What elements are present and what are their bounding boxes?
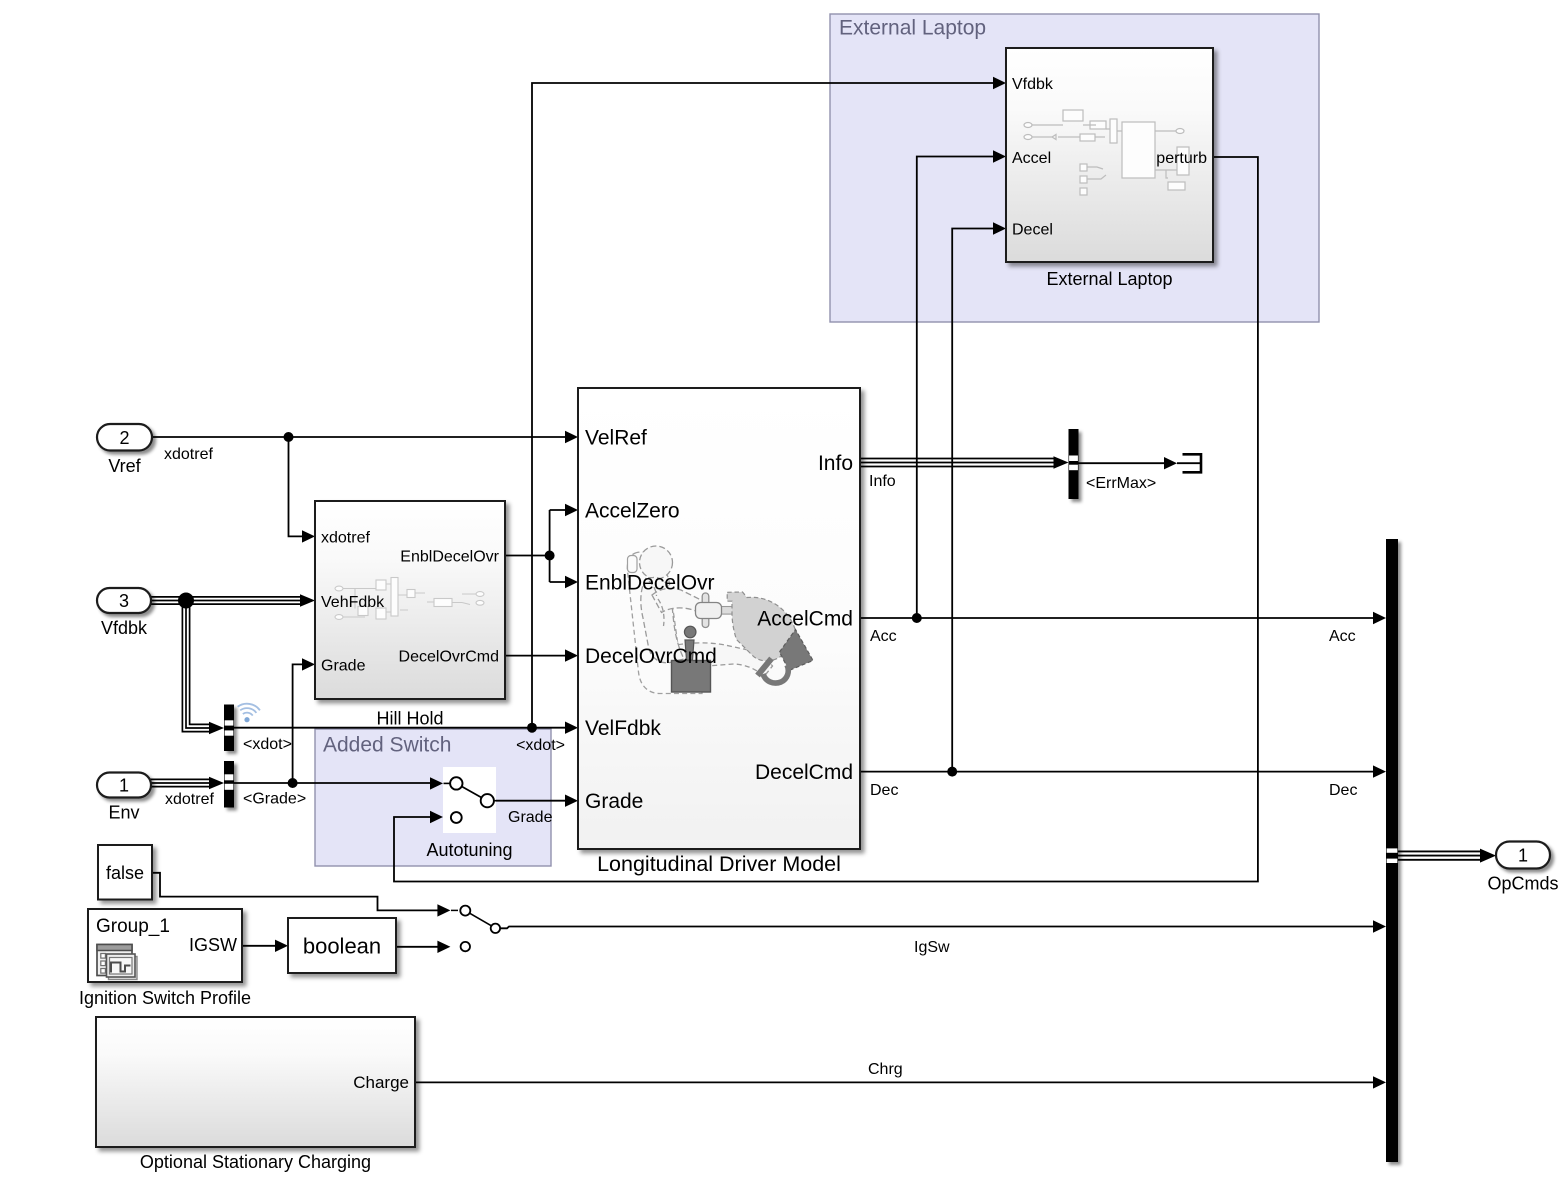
wire IgSw switch output to bus creator bbox=[500, 927, 1374, 929]
bus wire Vfdbk to Hill Hold VehFdbk (triple line) bbox=[150, 597, 302, 604]
svg-text:Vfdbk: Vfdbk bbox=[1012, 76, 1054, 93]
arrowhead bus creator Dec input bbox=[1373, 765, 1386, 777]
wire boolean to IgSw switch input 2 bbox=[396, 946, 438, 948]
driver icon steering wheel bbox=[696, 593, 734, 628]
junction node on Vfdbk bus bbox=[178, 593, 194, 609]
signal builder Ignition Switch Profile bbox=[88, 909, 242, 982]
wire Charge to bus creator (Chrg) bbox=[415, 1081, 1374, 1083]
svg-text:<ErrMax>: <ErrMax> bbox=[1086, 475, 1156, 492]
svg-text:VelFdbk: VelFdbk bbox=[585, 717, 661, 740]
arrowhead IgSw switch input 2 bbox=[437, 941, 450, 953]
wire xdot selector to VelFdbk bbox=[234, 727, 566, 729]
svg-text:Optional Stationary Charging: Optional Stationary Charging bbox=[140, 1152, 371, 1172]
svg-text:xdotref: xdotref bbox=[321, 529, 370, 546]
arrowhead Hill Hold xdotref input bbox=[302, 530, 315, 542]
arrowhead External Laptop Accel input bbox=[993, 150, 1006, 162]
constant false bbox=[98, 845, 152, 900]
outport 1 OpCmds bbox=[1496, 842, 1550, 869]
terminator bbox=[1183, 454, 1202, 472]
driver icon seat bbox=[627, 552, 702, 693]
wire Hill Hold DecelOvrCmd to driver DecelOvrCmd bbox=[505, 655, 566, 657]
bus wire Vfdbk branch down to xdot selector (triple line) bbox=[182, 601, 211, 732]
svg-text:Dec: Dec bbox=[1329, 782, 1357, 799]
inport 1 Env bbox=[97, 773, 151, 798]
wire External Laptop perturb to Autotuning switch input 2 bbox=[394, 157, 1258, 882]
arrowhead xdot selector input bbox=[209, 722, 224, 734]
svg-text:3: 3 bbox=[119, 591, 129, 611]
svg-text:<xdot>: <xdot> bbox=[243, 736, 292, 753]
arrowhead bus creator Chrg input bbox=[1373, 1076, 1386, 1088]
svg-text:AccelZero: AccelZero bbox=[585, 500, 680, 523]
bus wire bus creator to OpCmds (triple line) bbox=[1398, 851, 1482, 859]
driver icon gear shifter bbox=[672, 626, 711, 692]
svg-text:Acc: Acc bbox=[870, 628, 897, 645]
svg-text:1: 1 bbox=[119, 776, 129, 796]
wireless icon bbox=[235, 702, 260, 724]
bus selector xdot bbox=[224, 705, 234, 752]
area Added Switch bbox=[315, 729, 551, 866]
svg-text:Longitudinal Driver Model: Longitudinal Driver Model bbox=[597, 852, 841, 876]
data type conversion boolean bbox=[288, 918, 396, 973]
wire Hill Hold EnblDecelOvr to branches bbox=[505, 510, 566, 582]
arrowhead bus creator IgSw input bbox=[1373, 920, 1386, 932]
svg-text:xdotref: xdotref bbox=[165, 791, 214, 808]
wire ErrMax selector to terminator bbox=[1079, 462, 1201, 464]
subsystem Hill Hold bbox=[315, 501, 505, 729]
svg-text:xdotref: xdotref bbox=[164, 446, 213, 463]
svg-text:Accel: Accel bbox=[1012, 150, 1051, 167]
junction node on Vref wire bbox=[284, 432, 294, 442]
svg-text:perturb: perturb bbox=[1156, 150, 1207, 167]
arrowhead Hill Hold Grade input bbox=[302, 658, 315, 670]
svg-text:Info: Info bbox=[818, 452, 853, 475]
svg-text:OpCmds: OpCmds bbox=[1487, 874, 1558, 894]
arrowhead External Laptop Vfdbk input bbox=[993, 77, 1006, 89]
junction node on Dec wire bbox=[947, 767, 957, 777]
area External Laptop bbox=[830, 14, 1319, 322]
svg-text:Decel: Decel bbox=[1012, 222, 1053, 239]
arrowhead Autotuning switch input 1 bbox=[430, 777, 443, 789]
svg-text:DecelCmd: DecelCmd bbox=[755, 761, 853, 784]
wire Vref to VelRef bbox=[152, 436, 566, 438]
arrowhead terminator input bbox=[1164, 457, 1177, 469]
svg-text:Added Switch: Added Switch bbox=[323, 734, 451, 757]
wire Dec branch up to External Laptop Decel bbox=[952, 229, 993, 772]
wire false constant to IgSw switch input 1 bbox=[152, 873, 438, 911]
svg-text:IGSW: IGSW bbox=[189, 935, 237, 955]
junction node on Acc wire bbox=[912, 613, 922, 623]
wire Grade branch up to Hill Hold Grade bbox=[293, 664, 303, 783]
junction node EnblDecelOvr bbox=[545, 551, 555, 561]
svg-text:<Grade>: <Grade> bbox=[243, 791, 306, 808]
arrowhead Hill Hold VehFdbk input bbox=[300, 594, 315, 606]
svg-text:<xdot>: <xdot> bbox=[516, 737, 565, 754]
arrowhead boolean input bbox=[275, 940, 288, 952]
manual switch Autotuning bbox=[443, 767, 496, 833]
arrowhead VelRef input bbox=[565, 431, 578, 443]
manual switch IgSw bbox=[451, 906, 500, 952]
arrowhead bus creator Acc input bbox=[1373, 612, 1386, 624]
svg-text:Ignition Switch Profile: Ignition Switch Profile bbox=[79, 988, 251, 1008]
svg-text:IgSw: IgSw bbox=[914, 939, 950, 956]
arrowhead AccelZero input bbox=[565, 504, 578, 516]
svg-text:External Laptop: External Laptop bbox=[839, 17, 986, 40]
svg-text:DecelOvrCmd: DecelOvrCmd bbox=[585, 645, 717, 668]
svg-text:1: 1 bbox=[1518, 846, 1528, 866]
svg-text:boolean: boolean bbox=[303, 934, 381, 959]
svg-text:Dec: Dec bbox=[870, 782, 898, 799]
svg-text:AccelCmd: AccelCmd bbox=[757, 608, 853, 631]
driver icon dashboard bbox=[727, 592, 797, 661]
arrowhead EnblDecelOvr input bbox=[565, 576, 578, 588]
subsystem External Laptop bbox=[1006, 48, 1213, 289]
wire Acc branch up to External Laptop Accel bbox=[917, 157, 993, 619]
svg-text:2: 2 bbox=[119, 428, 129, 448]
subsystem Longitudinal Driver Model bbox=[578, 388, 860, 876]
svg-text:VelRef: VelRef bbox=[585, 427, 647, 450]
svg-text:Acc: Acc bbox=[1329, 628, 1356, 645]
driver icon pedal bbox=[758, 659, 789, 684]
inport 3 Vfdbk bbox=[97, 588, 151, 613]
arrowhead VelFdbk input bbox=[565, 722, 578, 734]
svg-text:Grade: Grade bbox=[508, 809, 553, 826]
bus wire Info to ErrMax selector (triple line) bbox=[860, 459, 1056, 467]
svg-text:Info: Info bbox=[869, 473, 896, 490]
inport 2 Vref bbox=[97, 424, 152, 451]
svg-text:false: false bbox=[106, 863, 144, 883]
svg-text:External Laptop: External Laptop bbox=[1046, 269, 1172, 289]
svg-text:Chrg: Chrg bbox=[868, 1061, 903, 1078]
svg-text:Hill Hold: Hill Hold bbox=[376, 709, 443, 729]
svg-text:Autotuning: Autotuning bbox=[426, 840, 512, 860]
bus selector ErrMax bbox=[1069, 429, 1079, 499]
subsystem Optional Stationary Charging bbox=[96, 1017, 415, 1147]
svg-text:Charge: Charge bbox=[353, 1073, 409, 1092]
bus selector Grade bbox=[224, 761, 234, 808]
wire Vref branch to Hill Hold xdotref bbox=[289, 437, 304, 536]
svg-text:EnblDecelOvr: EnblDecelOvr bbox=[400, 549, 499, 566]
svg-text:Grade: Grade bbox=[585, 790, 643, 813]
signal builder icon bbox=[97, 945, 137, 980]
svg-text:EnblDecelOvr: EnblDecelOvr bbox=[585, 572, 715, 595]
wire xdot branch up to External Laptop Vfdbk bbox=[532, 83, 993, 728]
arrowhead driver Grade input bbox=[565, 795, 578, 807]
svg-text:Grade: Grade bbox=[321, 657, 366, 674]
bus creator (output mux bar) bbox=[1386, 539, 1398, 1162]
driver icon leg bbox=[662, 643, 773, 677]
driver icon pedal cone bbox=[780, 630, 814, 671]
junction node on Grade wire bbox=[288, 778, 298, 788]
arrowhead DecelOvrCmd input bbox=[565, 649, 578, 661]
driver icon body bbox=[640, 546, 706, 663]
junction node on xdot wire bbox=[527, 723, 537, 733]
wire Autotuning switch output to driver Grade bbox=[494, 800, 566, 802]
wire Grade selector to Autotuning switch input 1 bbox=[234, 782, 430, 784]
bus wire Env to Grade selector (triple line) bbox=[150, 779, 211, 786]
arrowhead External Laptop Decel input bbox=[993, 222, 1006, 234]
svg-text:Vref: Vref bbox=[108, 456, 141, 476]
wire AccelCmd to bus creator (Acc) bbox=[860, 617, 1374, 619]
svg-text:Env: Env bbox=[108, 803, 139, 823]
svg-text:Group_1: Group_1 bbox=[96, 916, 170, 937]
wire DecelCmd to bus creator (Dec) bbox=[860, 771, 1374, 773]
arrowhead Grade selector input bbox=[209, 777, 224, 789]
arrowhead Autotuning switch input 2 bbox=[430, 811, 443, 823]
arrowhead OpCmds input bbox=[1480, 849, 1496, 863]
arrowhead IgSw switch input 1 bbox=[437, 904, 450, 916]
svg-text:DecelOvrCmd: DecelOvrCmd bbox=[399, 649, 499, 666]
arrowhead ErrMax selector input bbox=[1054, 456, 1069, 468]
wire IGSW to boolean bbox=[242, 945, 276, 947]
svg-text:Vfdbk: Vfdbk bbox=[101, 618, 148, 638]
svg-text:VehFdbk: VehFdbk bbox=[321, 594, 385, 611]
